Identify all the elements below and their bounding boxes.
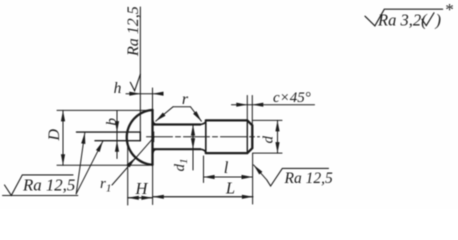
svg-text:*: * [445,0,454,19]
extension line: head bottom (D dim) [57,164,150,166]
centerline (screw axis) [147,136,260,138]
svg-text:): ) [435,10,442,29]
extension line: thread end down (L, l dims) [252,153,254,204]
dimension d [277,120,279,136]
roughness leader bottom-left to slot top line [76,133,85,194]
head face [151,110,153,165]
thread start edge [205,120,207,153]
svg-text:b: b [104,118,120,126]
chamfer start line [246,120,248,153]
extension line: head top (D dim) [57,109,153,111]
svg-text:Ra 12,5: Ra 12,5 [22,176,75,195]
radius r1 dimension line from sphere center [112,137,154,185]
svg-text:h: h [114,80,122,97]
extension line: thread start down (l dim) [203,156,205,183]
extension line: head left (H dim) [127,142,129,206]
thread outline with end chamfer [206,120,253,153]
roughness leader bottom-left to slot bottom line [76,141,103,194]
extension line: head face up (h dim) [152,88,154,110]
svg-text:c×45°: c×45° [273,90,311,106]
extension line: chamfer start up (c dim) [246,96,248,120]
extension line: thread end up (c dim) [251,96,253,125]
svg-text:d1: d1 [172,159,190,172]
svg-text:r1: r1 [100,176,111,195]
center mark cross at head sphere center [153,132,155,142]
dimension b: arrows outside slot [116,111,118,133]
svg-text:D: D [46,129,63,142]
dimension D [62,110,64,137]
shank top line d1 [153,123,200,125]
svg-text:Ra 3,2(: Ra 3,2( [377,10,428,29]
head dome arc (spherical head) [127,110,153,165]
svg-text:L: L [225,178,235,197]
small check in parentheses top-right [422,13,434,26]
roughness symbol top-left check (rotated) [130,74,140,91]
shank bottom line d1 [153,148,200,150]
roughness leader shelf bottom-left [3,195,78,197]
general roughness note check top-right [365,9,443,26]
slot bottom edge (extended left as extension line) [95,140,140,142]
fillet head-shank bottom r [153,149,157,153]
slot top edge (extended left as extension line) [77,131,141,133]
extension line: slot edge up to roughness symbol (h dim) [139,7,141,132]
svg-text:Ra 12,5: Ra 12,5 [125,6,142,57]
leader r shelf [173,106,191,108]
svg-text:H: H [134,179,148,198]
slot bottom (depth) edge [139,132,141,141]
fillet shank-thread bottom r [200,149,206,153]
svg-text:d: d [261,136,277,144]
extension line: head face down (H, L dims) [152,165,154,205]
fillet head-shank top r [153,121,157,125]
extension line: thread top right (d dim) [253,119,282,121]
leader r to head fillet [156,107,173,121]
dimension h: line and arrows [126,93,140,95]
extension line: thread bottom right (d dim) [253,152,282,154]
fillet shank-thread top r [200,121,206,125]
svg-text:r: r [182,91,189,108]
roughness leader bottom-right to thread end [254,165,267,180]
dimension l [204,176,228,178]
svg-text:l: l [224,158,229,177]
dimension L [153,196,253,198]
roughness symbol bottom-right check [267,168,329,186]
leader r to thread fillet [191,107,202,121]
roughness symbol bottom-left check [5,175,74,196]
svg-text:Ra 12,5: Ra 12,5 [284,170,333,187]
dimension c: line and outside arrows [232,104,248,106]
dimension H [128,197,153,199]
dimension d1 [192,125,194,170]
